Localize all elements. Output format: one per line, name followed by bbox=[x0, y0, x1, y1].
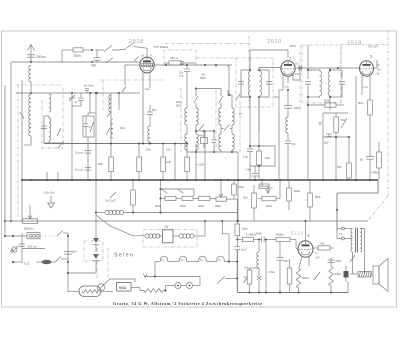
resistor R11 50k bbox=[348, 137, 350, 163]
resistor R9 5Mo bbox=[369, 95, 371, 100]
antenna coil L2 long bbox=[29, 94, 31, 136]
switch S5 bbox=[314, 272, 320, 280]
resistor R5 bbox=[186, 144, 188, 158]
wire plate corner bbox=[229, 65, 232, 95]
voice coil bbox=[358, 272, 371, 278]
wire V1 grid left bbox=[125, 64, 140, 66]
svg-text:2ⁿ’: 2ⁿ’ bbox=[315, 251, 318, 255]
svg-text:D: D bbox=[150, 54, 152, 58]
switch at V1 grid bbox=[134, 57, 139, 62]
wire x228 bbox=[227, 65, 229, 67]
wire x266 bbox=[265, 240, 267, 293]
wire bbox=[30, 136, 32, 145]
volume pot P2 20k bbox=[258, 198, 262, 200]
coil L6 bbox=[111, 119, 113, 138]
resistor R4 1k bbox=[162, 144, 164, 158]
cap C29 4.5u bbox=[254, 166, 256, 173]
wire left drop x11 bbox=[10, 62, 12, 221]
svg-text:47a: 47a bbox=[320, 242, 325, 246]
wire IF1 sec bottom bbox=[258, 97, 260, 131]
scale lamp H4 bbox=[179, 256, 186, 261]
dash-dot IF2 box bbox=[302, 45, 341, 103]
wire x330 det bbox=[329, 105, 331, 110]
svg-text:20ka: 20ka bbox=[198, 204, 204, 208]
svg-text:NSA: NSA bbox=[119, 286, 127, 290]
wire x119 bbox=[118, 93, 120, 110]
electrolytic C19 bbox=[344, 271, 349, 278]
switch S6 bbox=[350, 255, 355, 262]
wire x88 down bbox=[87, 137, 89, 180]
svg-text:0.12: 0.12 bbox=[24, 262, 30, 266]
svg-text:5000: 5000 bbox=[256, 232, 262, 236]
svg-text:an 8cm: an 8cm bbox=[84, 84, 94, 88]
dial chain arrow bbox=[145, 276, 200, 278]
ballast resistor U1 bbox=[79, 286, 101, 297]
wire stub x62 bbox=[61, 50, 63, 62]
svg-text:2918: 2918 bbox=[129, 39, 144, 45]
switch S2b bbox=[57, 128, 61, 136]
IF2 primary frame bbox=[308, 70, 320, 71]
dash-dot box anode load bbox=[164, 50, 196, 66]
svg-text:H₂: H₂ bbox=[218, 259, 221, 262]
svg-text:MPh’: MPh’ bbox=[290, 44, 297, 48]
svg-text:≈ 10μF: ≈ 10μF bbox=[196, 163, 205, 167]
svg-text:H₂: H₂ bbox=[181, 259, 184, 262]
dash-dot selen right bbox=[96, 248, 98, 278]
svg-text:300a: 300a bbox=[155, 204, 162, 208]
switch S2a bbox=[20, 112, 24, 119]
wire lamps left end bbox=[154, 262, 156, 277]
svg-text:5μF: 5μF bbox=[324, 141, 329, 145]
wire V2 pin3 bbox=[293, 68, 300, 80]
svg-text:150: 150 bbox=[295, 73, 300, 76]
svg-text:Z: Z bbox=[289, 57, 291, 61]
triode-hexode V1 bbox=[140, 57, 154, 73]
NSA box bbox=[117, 283, 132, 292]
bus bottom y292 bbox=[237, 292, 348, 294]
svg-text:100ⁿ: 100ⁿ bbox=[284, 259, 289, 263]
svg-text:4.5μ: 4.5μ bbox=[246, 169, 251, 172]
resistor R6 234a bbox=[164, 62, 169, 64]
svg-text:5Ma: 5Ma bbox=[315, 195, 321, 199]
IF1 primary frame bbox=[241, 70, 250, 97]
wire y62 main bbox=[11, 61, 140, 63]
potentiometer P1 50k bbox=[23, 219, 38, 224]
cathode zigzag R24 bbox=[296, 268, 300, 288]
svg-text:5Mo: 5Mo bbox=[358, 101, 364, 105]
resistor R19 50k bbox=[288, 180, 290, 188]
svg-text:PhT 620bis: PhT 620bis bbox=[154, 45, 169, 49]
output pentode V4 bbox=[298, 241, 313, 257]
svg-text:40n: 40n bbox=[199, 134, 204, 138]
wire mains top bbox=[5, 235, 27, 237]
cap C27 100n bbox=[279, 242, 281, 258]
resistor R1 200n bbox=[73, 48, 83, 52]
resistor R14 300a bbox=[182, 196, 193, 200]
wire y221 long bbox=[5, 220, 368, 222]
filter choke L20 bbox=[145, 234, 149, 238]
svg-text:20ka: 20ka bbox=[266, 204, 273, 208]
dash-dot IF1 box bbox=[236, 58, 273, 107]
padding cap C8 40n bbox=[201, 138, 208, 144]
switch S4 bbox=[341, 118, 347, 128]
cap C4 bbox=[41, 125, 47, 127]
wire V1 pin bbox=[149, 72, 151, 88]
wire V4 plate bbox=[305, 221, 307, 241]
dash y148 bbox=[41, 147, 63, 149]
dash-dot top band box bbox=[100, 79, 164, 81]
coil L4 frame bbox=[44, 116, 49, 143]
wire ballast bbox=[68, 290, 79, 292]
switch osc right bbox=[236, 94, 240, 101]
svg-text:100n: 100n bbox=[294, 106, 301, 110]
dash y58 bbox=[196, 57, 236, 59]
cap C16 8u bbox=[366, 156, 374, 158]
resistor R21 10k bbox=[236, 213, 238, 225]
svg-text:10ka: 10ka bbox=[242, 227, 249, 231]
svg-text:7n4: 7n4 bbox=[179, 75, 184, 78]
scale lamp H6 bbox=[217, 256, 224, 261]
wire x356 long bbox=[355, 76, 357, 180]
wire into Gr bbox=[95, 180, 97, 228]
label 180cm bbox=[22, 248, 45, 250]
node bbox=[71, 92, 73, 94]
small cap bbox=[85, 88, 89, 90]
svg-text:10 μcm: 10 μcm bbox=[75, 168, 84, 172]
mains plug 2 bbox=[97, 284, 104, 291]
scale lamp H3 bbox=[160, 256, 167, 261]
wire x216 bbox=[215, 65, 217, 67]
IF1 cap C11 bbox=[266, 81, 272, 83]
osc coil L8a bbox=[186, 72, 188, 108]
dial lamp H1 bbox=[175, 283, 181, 289]
node top bus bbox=[91, 49, 93, 51]
pot section Ra 20k bbox=[199, 196, 211, 200]
trimmer cap C3 bbox=[80, 93, 82, 97]
dash-dot Gr box bbox=[143, 230, 197, 248]
switch S7a bbox=[57, 231, 63, 237]
resistor R10 0.8M bbox=[378, 142, 380, 152]
node bbox=[249, 69, 251, 71]
svg-text:+7μ: +7μ bbox=[363, 85, 368, 89]
wire IF2 bottoms bbox=[307, 97, 309, 113]
svg-text:Graetz, 54 G W, Allstrom,’2 Vo: Graetz, 54 G W, Allstrom,’2 Vorkreise 4 … bbox=[113, 301, 262, 306]
wire x22 mains bbox=[21, 233, 23, 263]
osc coil L8b bbox=[186, 125, 188, 134]
switch S1a bbox=[95, 49, 104, 51]
switch S3b bbox=[106, 128, 110, 135]
wire heater vert bbox=[160, 180, 162, 213]
svg-text:T2: T2 bbox=[339, 232, 343, 236]
wire IF1 sec top to V2 grid bbox=[259, 68, 281, 71]
osc coil L10a bbox=[220, 89, 222, 97]
svg-text:2×0.1μF: 2×0.1μF bbox=[105, 199, 116, 203]
IF1 secondary coil L14 bbox=[260, 71, 262, 96]
svg-text:10ka: 10ka bbox=[265, 157, 271, 160]
wire NSA out bbox=[131, 287, 140, 289]
antenna trimmer cap bbox=[27, 54, 35, 56]
wire top y50 bbox=[62, 49, 73, 51]
wire T2 left bbox=[337, 228, 342, 230]
svg-text:≈1μF: ≈1μF bbox=[241, 248, 247, 252]
resistor R13 300a bbox=[161, 198, 166, 200]
coil L4 bbox=[49, 118, 51, 141]
svg-text:20n: 20n bbox=[146, 148, 151, 152]
svg-text:1kΩ: 1kΩ bbox=[166, 160, 171, 164]
wire V1 cathode bbox=[142, 72, 144, 144]
fuse F1 bbox=[42, 260, 52, 264]
resistor R17 bbox=[259, 185, 269, 187]
dash-dot x249 upper bbox=[248, 36, 250, 58]
svg-text:50ka: 50ka bbox=[294, 189, 301, 193]
wire IF2 sec top bbox=[329, 68, 331, 70]
node bus bbox=[30, 179, 32, 181]
filter choke L21 bbox=[174, 235, 180, 237]
wire to NSA bbox=[106, 279, 118, 283]
svg-text:50k: 50k bbox=[337, 165, 342, 169]
switch S3c bbox=[122, 87, 126, 93]
node bbox=[265, 291, 267, 293]
wire V3 pins bbox=[361, 76, 363, 96]
coil L7 bbox=[148, 126, 150, 142]
wire V2 plate right bbox=[295, 67, 359, 69]
node bbox=[258, 69, 260, 71]
wire osc mid bbox=[196, 130, 214, 132]
selenium rectifier dashed box bbox=[84, 241, 103, 261]
Gr box bbox=[163, 230, 174, 243]
heater zigzag R28 bbox=[140, 288, 144, 291]
switch S2c bbox=[58, 141, 64, 148]
resistor R23 400k bbox=[276, 237, 290, 241]
node bbox=[110, 142, 112, 144]
IF2 primary coil L15 bbox=[320, 71, 322, 96]
cap C22 500cm bbox=[19, 243, 25, 245]
dash y43 top bbox=[165, 43, 249, 45]
cap C24 10ucm bbox=[85, 150, 91, 152]
resistor R8 bbox=[335, 113, 337, 117]
gang capacitor CV1 bbox=[71, 93, 73, 180]
padder box bbox=[83, 116, 94, 137]
svg-text:2610: 2610 bbox=[267, 39, 282, 45]
wire x323 det bbox=[322, 137, 324, 180]
dotted wire bbox=[40, 235, 56, 237]
dash-dot osc bbox=[180, 88, 182, 152]
cap C18 500n bbox=[328, 259, 335, 261]
wire x47 x58 bbox=[46, 172, 48, 180]
antenna coil L1 bbox=[29, 66, 31, 82]
IF1 primary coil L13 bbox=[248, 71, 250, 96]
svg-text:H₂: H₂ bbox=[162, 259, 165, 262]
IF1 cap C10 bbox=[238, 81, 244, 83]
selenium diode D2 bbox=[95, 228, 97, 238]
switch S8 bbox=[217, 276, 225, 284]
svg-text:600n: 600n bbox=[324, 99, 331, 103]
IF1 secondary frame bbox=[259, 70, 269, 97]
cap C5 50n bbox=[149, 105, 151, 112]
wire V2 pins bbox=[282, 75, 284, 90]
svg-text:1Mo: 1Mo bbox=[244, 267, 249, 270]
switch S7b bbox=[55, 257, 61, 263]
wire x205 gr bbox=[204, 221, 206, 236]
output transformer T2 bbox=[344, 228, 352, 230]
wire bbox=[30, 82, 32, 93]
terminal jack bbox=[342, 227, 345, 230]
coil L5 bbox=[109, 95, 111, 112]
svg-text:EL12: EL12 bbox=[291, 231, 304, 236]
wire speaker bbox=[364, 262, 366, 271]
cap C26 bbox=[180, 61, 185, 63]
wire IF1 primary bottom bbox=[249, 97, 251, 112]
osc coil L11a bbox=[231, 95, 233, 108]
cathode cap C12 bbox=[287, 90, 289, 105]
coil L3 bbox=[49, 94, 51, 112]
svg-text:800: 800 bbox=[341, 119, 346, 122]
wire y93 bbox=[16, 92, 140, 94]
node bbox=[165, 64, 167, 66]
resistor R15 5Ma bbox=[233, 180, 235, 184]
svg-text:≈500ⁿ: ≈500ⁿ bbox=[335, 259, 342, 263]
node bbox=[307, 69, 309, 71]
wire mains bottom bbox=[13, 261, 22, 263]
coupling cap C28 bbox=[298, 65, 300, 71]
dash-dot x300 bbox=[299, 45, 301, 112]
svg-text:+1μ: +1μ bbox=[284, 85, 289, 89]
cap C20 1uF bbox=[236, 240, 238, 247]
svg-text:70ⁿ: 70ⁿ bbox=[295, 62, 299, 66]
switch S3a bbox=[107, 112, 111, 117]
svg-text:234 a: 234 a bbox=[170, 56, 178, 60]
wire T2 sec bbox=[360, 229, 364, 253]
wire grid row bbox=[237, 239, 242, 241]
cap C9 bbox=[212, 139, 217, 141]
pot arrow bbox=[220, 191, 222, 198]
loop box V2 cathode bbox=[250, 145, 275, 147]
wire x150 bbox=[149, 115, 151, 126]
svg-text:500n: 500n bbox=[176, 105, 182, 108]
cap in padder bbox=[84, 123, 89, 125]
dial lamp H2 bbox=[187, 283, 193, 289]
svg-text:15n: 15n bbox=[377, 69, 382, 72]
wire x238 mid bbox=[237, 180, 239, 221]
svg-text:5μF: 5μF bbox=[72, 250, 77, 254]
svg-text:10μ: 10μ bbox=[145, 87, 150, 91]
svg-text:G: G bbox=[319, 121, 322, 126]
resistor R29 47a bbox=[313, 247, 318, 249]
svg-text:40n: 40n bbox=[91, 64, 97, 68]
wire x96 bbox=[95, 92, 97, 180]
osc link cols34 bbox=[221, 128, 224, 130]
choke coil L17 bbox=[96, 212, 105, 214]
IF2 cap C13 bbox=[305, 81, 311, 83]
svg-text:10k Ωm: 10k Ωm bbox=[44, 191, 55, 195]
heater switch chain bbox=[161, 188, 195, 190]
resistor R26 01M bbox=[249, 268, 251, 270]
osc coil L10b bbox=[220, 125, 222, 134]
svg-text:20n: 20n bbox=[292, 143, 297, 146]
osc coil L9a bbox=[195, 89, 197, 97]
wire x308 IF2 down bbox=[307, 113, 309, 180]
svg-text:10n: 10n bbox=[166, 148, 171, 152]
wire x205 mid bbox=[204, 131, 206, 180]
dash-dot x341 bbox=[340, 45, 342, 103]
dash top right section bbox=[341, 44, 388, 46]
resistor R2 500 bbox=[110, 144, 112, 158]
svg-text:50kΩm: 50kΩm bbox=[24, 227, 34, 231]
mains plug P bbox=[12, 247, 17, 252]
wire x279 V2 bbox=[278, 110, 280, 180]
node bbox=[329, 69, 331, 71]
bus wire y180 bbox=[22, 179, 378, 181]
diode D1 bbox=[244, 277, 248, 283]
svg-text:1.25MΩ: 1.25MΩ bbox=[246, 233, 256, 237]
svg-text:20n: 20n bbox=[274, 95, 279, 99]
wire y273 bbox=[68, 272, 96, 274]
fuse holder bbox=[27, 233, 40, 239]
svg-text:3ka: 3ka bbox=[243, 196, 248, 200]
wire V3 right bbox=[374, 67, 377, 69]
switch 2x01 bbox=[110, 192, 116, 198]
svg-text:PhT 62ˢⁱ: PhT 62ˢⁱ bbox=[368, 44, 379, 49]
svg-text:300a: 300a bbox=[180, 204, 186, 208]
wire x68 drop bbox=[67, 236, 69, 292]
svg-text:5Ma: 5Ma bbox=[239, 185, 245, 189]
wire osc top bbox=[196, 88, 221, 90]
wire V4 pins bbox=[308, 257, 310, 266]
wire lamp feed bbox=[222, 221, 229, 262]
tone coil L19 bbox=[258, 240, 260, 253]
resistor R3 bbox=[138, 144, 140, 158]
ground Y bbox=[50, 196, 52, 203]
resistor R12 ballast bbox=[132, 180, 134, 190]
svg-text:7μF: 7μF bbox=[315, 256, 320, 260]
svg-text:Selen: Selen bbox=[114, 253, 134, 259]
osc coil L11b bbox=[231, 125, 233, 134]
loudspeaker LS1 bbox=[373, 266, 379, 284]
dash-dot box left tuner bbox=[17, 85, 19, 218]
pot section Rb 20k bbox=[216, 197, 227, 201]
svg-text:1.5k: 1.5k bbox=[243, 156, 248, 159]
wire osc bottom bbox=[187, 151, 238, 153]
tap mark bbox=[257, 276, 261, 280]
wire IF2 primary bbox=[307, 45, 309, 70]
node bbox=[30, 61, 32, 63]
resistor R22 1.25M bbox=[243, 237, 254, 241]
svg-text:400ka: 400ka bbox=[276, 233, 284, 237]
svg-text:500 cm: 500 cm bbox=[28, 245, 38, 249]
wire x111 down bbox=[110, 93, 112, 143]
svg-text:8μ: 8μ bbox=[360, 158, 364, 162]
wire x175 bbox=[174, 144, 176, 181]
wire x259 IF1 down bbox=[258, 97, 260, 151]
svg-text:10 μcm: 10 μcm bbox=[75, 151, 84, 155]
svg-text:1.7Ma: 1.7Ma bbox=[268, 270, 276, 274]
wire x90 bbox=[89, 93, 91, 113]
wire lamps row bbox=[155, 261, 160, 263]
coupling cap C17 bbox=[261, 237, 263, 243]
svg-text:50Ka: 50Ka bbox=[335, 272, 342, 276]
svg-text:gⁿ: gⁿ bbox=[350, 272, 352, 276]
bus corner right bbox=[337, 180, 378, 193]
capacitor C6 bbox=[186, 64, 188, 66]
scale lamp H5 bbox=[199, 256, 206, 261]
wire x33 pot feed bbox=[29, 205, 31, 212]
svg-text:50n: 50n bbox=[152, 108, 157, 112]
wire x196 bbox=[195, 144, 197, 181]
bus wire y143 bbox=[44, 143, 187, 145]
svg-text:200n: 200n bbox=[74, 54, 81, 58]
wire x250 IF1 down bbox=[249, 112, 251, 149]
svg-text:500n: 500n bbox=[200, 76, 206, 80]
